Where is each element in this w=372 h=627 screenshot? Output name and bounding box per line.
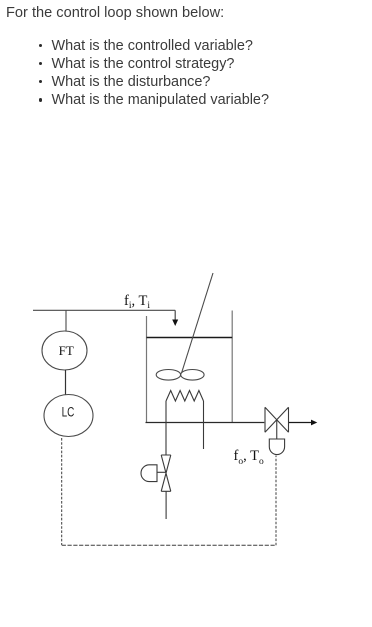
tank right wall (231, 311, 233, 423)
svg-text:fi, Ti: fi, Ti (124, 293, 150, 311)
heating coil right leg (203, 401, 205, 449)
flow transmitter FT circle (42, 331, 87, 370)
outlet valve V2 body (crossed bowtie) (265, 407, 289, 432)
V1 actuator dome (141, 465, 157, 482)
heating coil zigzag (166, 391, 204, 402)
tank left wall (146, 316, 148, 423)
pipe below V1 (165, 491, 167, 519)
outlet pipe right of valve (289, 422, 312, 424)
wire: pipe tap to FT (65, 310, 67, 331)
inlet pipe horizontal (33, 309, 175, 311)
wire: FT to LC (65, 370, 67, 395)
svg-text:LC: LC (62, 404, 75, 419)
liquid level line (147, 337, 233, 339)
level controller LC circle (44, 395, 93, 437)
heating coil left leg (165, 401, 167, 455)
V2 stem (276, 420, 278, 440)
outlet arrowhead (311, 420, 317, 426)
stirrer shaft (182, 273, 213, 373)
V2 actuator diaphragm (269, 439, 284, 455)
svg-text:fo, To: fo, To (234, 448, 264, 467)
svg-text:FT: FT (59, 343, 74, 358)
wire: V1 actuator to valve (157, 471, 166, 473)
stirrer impeller blade right (181, 370, 204, 381)
stirrer impeller blade left (156, 370, 180, 381)
tank bottom / outlet pipe left of valve (146, 422, 265, 424)
inlet pipe vertical drop (174, 310, 176, 320)
inlet flow arrowhead (172, 320, 178, 327)
signal line: LC down (dashed) (61, 438, 63, 545)
heater valve V1 body (crossed bowtie) (161, 455, 171, 491)
signal line: up to V2 actuator (dashed) (275, 456, 277, 546)
signal line: bottom horizontal (dashed) (62, 544, 276, 546)
